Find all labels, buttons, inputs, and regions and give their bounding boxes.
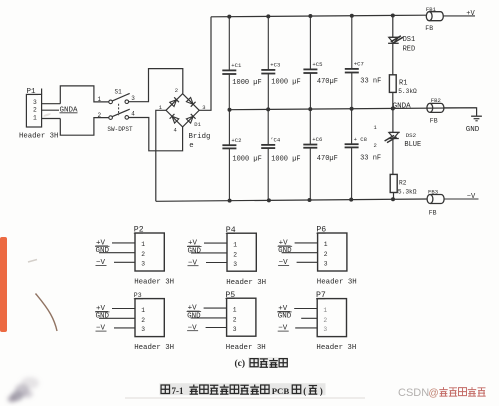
wire P1 pin3 to block xyxy=(42,103,61,105)
svg-text:2: 2 xyxy=(141,317,145,324)
connector P1 Header 3H xyxy=(19,88,58,140)
connector P3 Header 3H xyxy=(95,292,174,352)
svg-text:2: 2 xyxy=(233,251,237,258)
svg-text:CSDN: CSDN xyxy=(398,387,429,399)
artifact gray smudge bottom-left xyxy=(8,377,40,403)
node GNDA net label at P1 xyxy=(60,107,79,115)
capacitor C3 xyxy=(261,16,300,109)
svg-text:Header 3H: Header 3H xyxy=(19,132,58,140)
svg-text:2: 2 xyxy=(233,316,237,323)
svg-text:−V: −V xyxy=(467,193,476,201)
resistor R1 5.3k xyxy=(389,75,417,109)
svg-text:Header 3H: Header 3H xyxy=(316,344,356,352)
svg-text:GND: GND xyxy=(96,313,110,321)
connector P6 Header 3H xyxy=(278,226,357,287)
svg-text:1: 1 xyxy=(141,241,145,248)
caption figure 7-1 title xyxy=(160,383,326,396)
svg-text:FB: FB xyxy=(425,25,433,32)
svg-text:GND: GND xyxy=(278,313,292,321)
watermark CSDN xyxy=(398,387,486,399)
connector P5 Header 3H xyxy=(187,291,266,352)
caption (c) rectifier circuit xyxy=(235,357,289,369)
svg-text:2: 2 xyxy=(323,317,327,324)
svg-text:2: 2 xyxy=(374,142,377,149)
svg-text:Header 3H: Header 3H xyxy=(134,344,174,352)
svg-text:@: @ xyxy=(429,388,439,399)
svg-text:FB: FB xyxy=(429,209,437,216)
svg-text:33 nF: 33 nF xyxy=(360,155,381,163)
wire FB1 to +V xyxy=(443,15,475,17)
svg-text:+V: +V xyxy=(466,10,475,18)
LED DS2 BLUE xyxy=(374,108,422,174)
wire FB2 to GND xyxy=(444,108,477,116)
svg-text:PCB: PCB xyxy=(272,386,290,396)
svg-text:+C1: +C1 xyxy=(231,62,242,69)
ferrite bead FB2 xyxy=(427,97,444,124)
bridge rectifier D1 xyxy=(159,87,211,150)
artifact faint page streak xyxy=(125,397,365,399)
svg-text:BLUE: BLUE xyxy=(404,141,421,149)
wire FB3 to -V xyxy=(444,198,479,200)
svg-text:1: 1 xyxy=(233,306,237,313)
wire P1 pin3 to S1 pin1 (upper route) xyxy=(60,86,108,104)
svg-text:3: 3 xyxy=(233,326,237,333)
svg-text:5.3kΩ: 5.3kΩ xyxy=(398,189,417,196)
svg-text:R1: R1 xyxy=(399,79,407,87)
svg-text:GND: GND xyxy=(278,247,292,255)
svg-text:Header 3H: Header 3H xyxy=(134,279,174,287)
svg-text:2: 2 xyxy=(141,251,145,258)
svg-text:470µF: 470µF xyxy=(317,78,338,86)
svg-text:GND: GND xyxy=(187,312,201,320)
svg-text:1000 µF: 1000 µF xyxy=(271,155,300,163)
svg-text:GND: GND xyxy=(188,247,202,255)
svg-text:3: 3 xyxy=(131,95,135,102)
svg-text:3: 3 xyxy=(33,99,37,106)
svg-text:3: 3 xyxy=(233,261,237,268)
svg-text:+C2: +C2 xyxy=(231,137,241,144)
svg-text:GNDA: GNDA xyxy=(393,103,412,111)
svg-text:’C4: ’C4 xyxy=(270,136,281,143)
svg-text:1: 1 xyxy=(233,241,237,248)
svg-text:Bridg: Bridg xyxy=(189,133,211,141)
svg-text:3: 3 xyxy=(323,326,327,333)
node junctions on -V rail xyxy=(228,197,395,202)
svg-text:(c): (c) xyxy=(235,358,246,369)
svg-text:DS1: DS1 xyxy=(403,36,416,44)
connector P7 Header 3H xyxy=(277,291,356,352)
ferrite bead FB3 xyxy=(427,189,444,217)
svg-text:5.3kΩ: 5.3kΩ xyxy=(398,88,417,95)
wire GNDA middle rail xyxy=(230,108,477,110)
capacitor C6 xyxy=(303,109,338,200)
capacitor C5 xyxy=(303,16,338,109)
svg-text:S1: S1 xyxy=(115,89,123,96)
svg-text:3: 3 xyxy=(141,261,145,268)
resistor R2 5.3k xyxy=(390,174,417,199)
wire S1 pin3 to bridge pin2 xyxy=(129,69,183,102)
capacitor C7 xyxy=(345,16,382,109)
capacitor C2 xyxy=(222,110,261,201)
svg-text:e: e xyxy=(189,142,193,150)
svg-text:SW-DPST: SW-DPST xyxy=(107,126,133,133)
svg-text:1: 1 xyxy=(33,114,37,121)
LED DS1 RED xyxy=(388,15,415,74)
ferrite bead FB1 xyxy=(425,6,443,32)
svg-text:470µF: 470µF xyxy=(317,155,338,163)
svg-text:GND: GND xyxy=(466,126,480,134)
ground GND symbol xyxy=(466,116,482,134)
svg-text:2: 2 xyxy=(175,87,178,94)
svg-text:DS2: DS2 xyxy=(406,132,417,139)
svg-text:33 nF: 33 nF xyxy=(360,77,381,85)
capacitor C4 xyxy=(261,109,300,200)
power flag -V xyxy=(467,193,476,201)
svg-text:1: 1 xyxy=(141,307,145,314)
svg-text:1000 µF: 1000 µF xyxy=(232,156,261,164)
svg-text:Header 3H: Header 3H xyxy=(226,344,266,352)
svg-text:+C7: +C7 xyxy=(354,61,364,68)
svg-text:R2: R2 xyxy=(399,180,407,187)
svg-text:(: ( xyxy=(303,386,306,396)
svg-text:Header 3H: Header 3H xyxy=(317,279,357,287)
power flag +V xyxy=(466,10,475,18)
svg-text:3: 3 xyxy=(141,326,145,333)
svg-text:1: 1 xyxy=(323,307,327,314)
svg-text:+ C8: + C8 xyxy=(354,136,367,143)
wire P1 pin1 to S1 pin2 (lower route) xyxy=(60,118,108,136)
connector P2 Header 3H xyxy=(95,226,174,287)
wire -V bottom rail xyxy=(156,199,427,201)
wire +V top rail xyxy=(211,15,426,17)
wire P1 pin2 to GNDA label xyxy=(42,109,59,111)
svg-text:1000 µF: 1000 µF xyxy=(232,79,261,87)
svg-text:RED: RED xyxy=(403,45,416,53)
svg-text:+C6: +C6 xyxy=(312,136,322,143)
wire S1 pin4 to bridge pin4 xyxy=(129,118,183,151)
node junctions on GNDA rail xyxy=(228,106,395,111)
svg-text:1: 1 xyxy=(324,241,328,248)
connector P4 Header 3H xyxy=(187,226,266,287)
svg-text:2: 2 xyxy=(33,107,37,114)
capacitor C1 xyxy=(222,17,261,110)
svg-text:FB: FB xyxy=(430,117,438,124)
wire bridge pin3 up to +V rail xyxy=(199,17,211,111)
svg-text:GNDA: GNDA xyxy=(60,107,79,115)
svg-text:7-1: 7-1 xyxy=(172,386,184,396)
wire P1 pin1 to block xyxy=(42,118,61,120)
node GNDA net label on rail xyxy=(393,103,412,111)
svg-text:4: 4 xyxy=(131,111,135,118)
svg-text:+C3: +C3 xyxy=(270,62,280,69)
node junctions on +V rail xyxy=(227,13,394,18)
svg-text:): ) xyxy=(320,386,323,396)
svg-text:3: 3 xyxy=(324,261,328,268)
svg-text:+C5: +C5 xyxy=(312,61,322,68)
svg-text:2: 2 xyxy=(324,251,328,258)
artifact orange bar left edge xyxy=(0,237,7,332)
capacitor C8 xyxy=(345,109,382,200)
svg-text:1: 1 xyxy=(98,96,102,103)
artifact brown hair curve xyxy=(36,294,58,332)
svg-text:2: 2 xyxy=(98,112,102,119)
svg-text:D1: D1 xyxy=(194,121,201,128)
switch S1 SW-DPST xyxy=(98,89,136,134)
svg-text:GND: GND xyxy=(96,247,110,255)
svg-text:1000 µF: 1000 µF xyxy=(271,78,300,86)
artifact faint dash xyxy=(28,113,51,262)
svg-text:Header 3H: Header 3H xyxy=(226,279,266,287)
wire bridge pin1 down to -V rail xyxy=(156,110,166,201)
